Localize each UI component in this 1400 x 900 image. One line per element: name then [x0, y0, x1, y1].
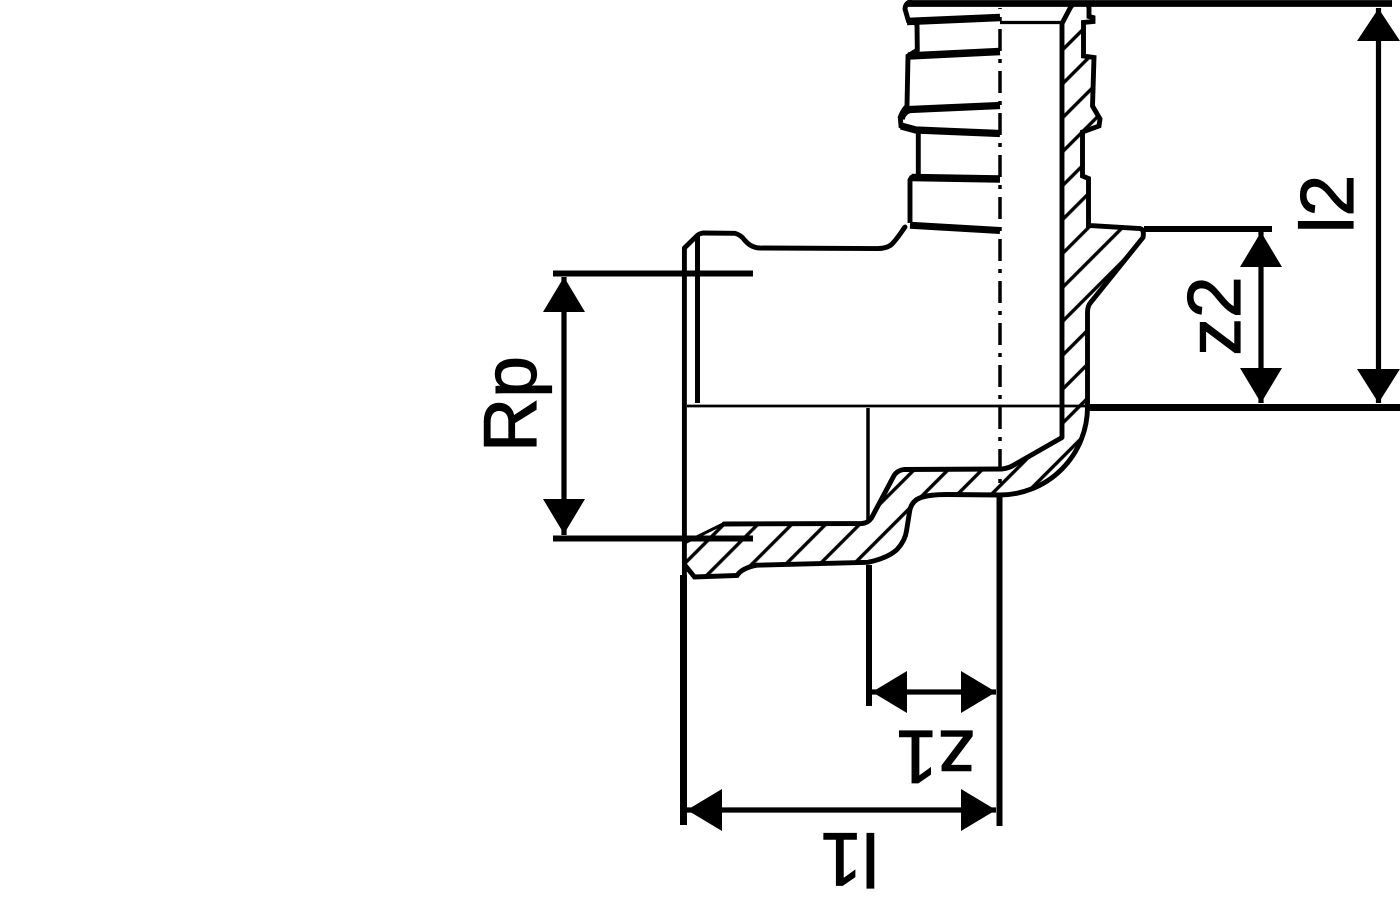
- centerline extension for z1/l1 (solid): [997, 494, 1003, 826]
- l1 arrow left: [687, 789, 722, 831]
- svg-text:z2: z2: [1172, 276, 1256, 355]
- z2/l2 bottom extension line (thick): [1087, 404, 1400, 411]
- z1 arrow left: [872, 671, 907, 713]
- svg-text:l1: l1: [820, 818, 878, 900]
- barb ring face line 3: [912, 178, 1001, 180]
- socket mouth chamfer (thin line in section): [686, 524, 725, 543]
- socket face line and l1 extension line: [682, 248, 687, 577]
- z1 dimension line: [872, 689, 996, 694]
- svg-text:Rp: Rp: [468, 356, 552, 452]
- Rp dimension line: [561, 277, 566, 535]
- vertical centerline dash-dot: [998, 8, 1002, 490]
- Rp bottom extension line: [553, 536, 753, 542]
- section outline: outer profile right half (barbed end, shoulder, elbow arc, socket bottom): [684, 3, 1143, 578]
- barb tooth cone line: [901, 126, 1000, 134]
- barb tooth underside line (tip at left): [901, 106, 1000, 120]
- socket face chamfer edge (thin vertical): [695, 235, 700, 403]
- horizontal centerline (thin): [687, 405, 1087, 408]
- thread end line (thin): [866, 408, 870, 522]
- svg-text:l2: l2: [1285, 175, 1369, 233]
- l2 dimension line: [1376, 8, 1381, 403]
- z1 extension line: [866, 565, 872, 706]
- z2 arrow up: [1240, 232, 1282, 267]
- l2 arrow down: [1357, 369, 1400, 403]
- z2 dimension line: [1258, 232, 1263, 403]
- left silhouette: barbed pipe exterior and body top edge: [900, 1, 918, 223]
- pipe top face line and l2 top extension line: [908, 0, 1392, 7]
- pipe end inner edge (thin): [1000, 21, 1062, 24]
- Rp arrow down: [543, 499, 585, 534]
- z1 arrow right: [961, 671, 996, 713]
- z2 shoulder extension line: [1144, 226, 1272, 232]
- Rp arrow up: [543, 277, 585, 312]
- l1 dimension line: [687, 807, 996, 812]
- collar top face line: [910, 225, 1000, 230]
- barb ring face line 2: [908, 52, 1000, 57]
- body top edge silhouette with collar fillet: [684, 227, 905, 249]
- Rp top extension line: [553, 271, 753, 277]
- hatched section wall of fitting: [684, 3, 1143, 577]
- svg-text:z1: z1: [896, 715, 975, 799]
- barb ring face line 1 (under top bead): [907, 18, 1000, 22]
- l2 arrow up: [1357, 9, 1400, 42]
- section outline: inner bore (socket thread bore, elbow bore, vertical pipe bore): [724, 4, 1073, 525]
- l1 arrow right: [961, 789, 996, 831]
- z2 arrow down: [1240, 368, 1282, 403]
